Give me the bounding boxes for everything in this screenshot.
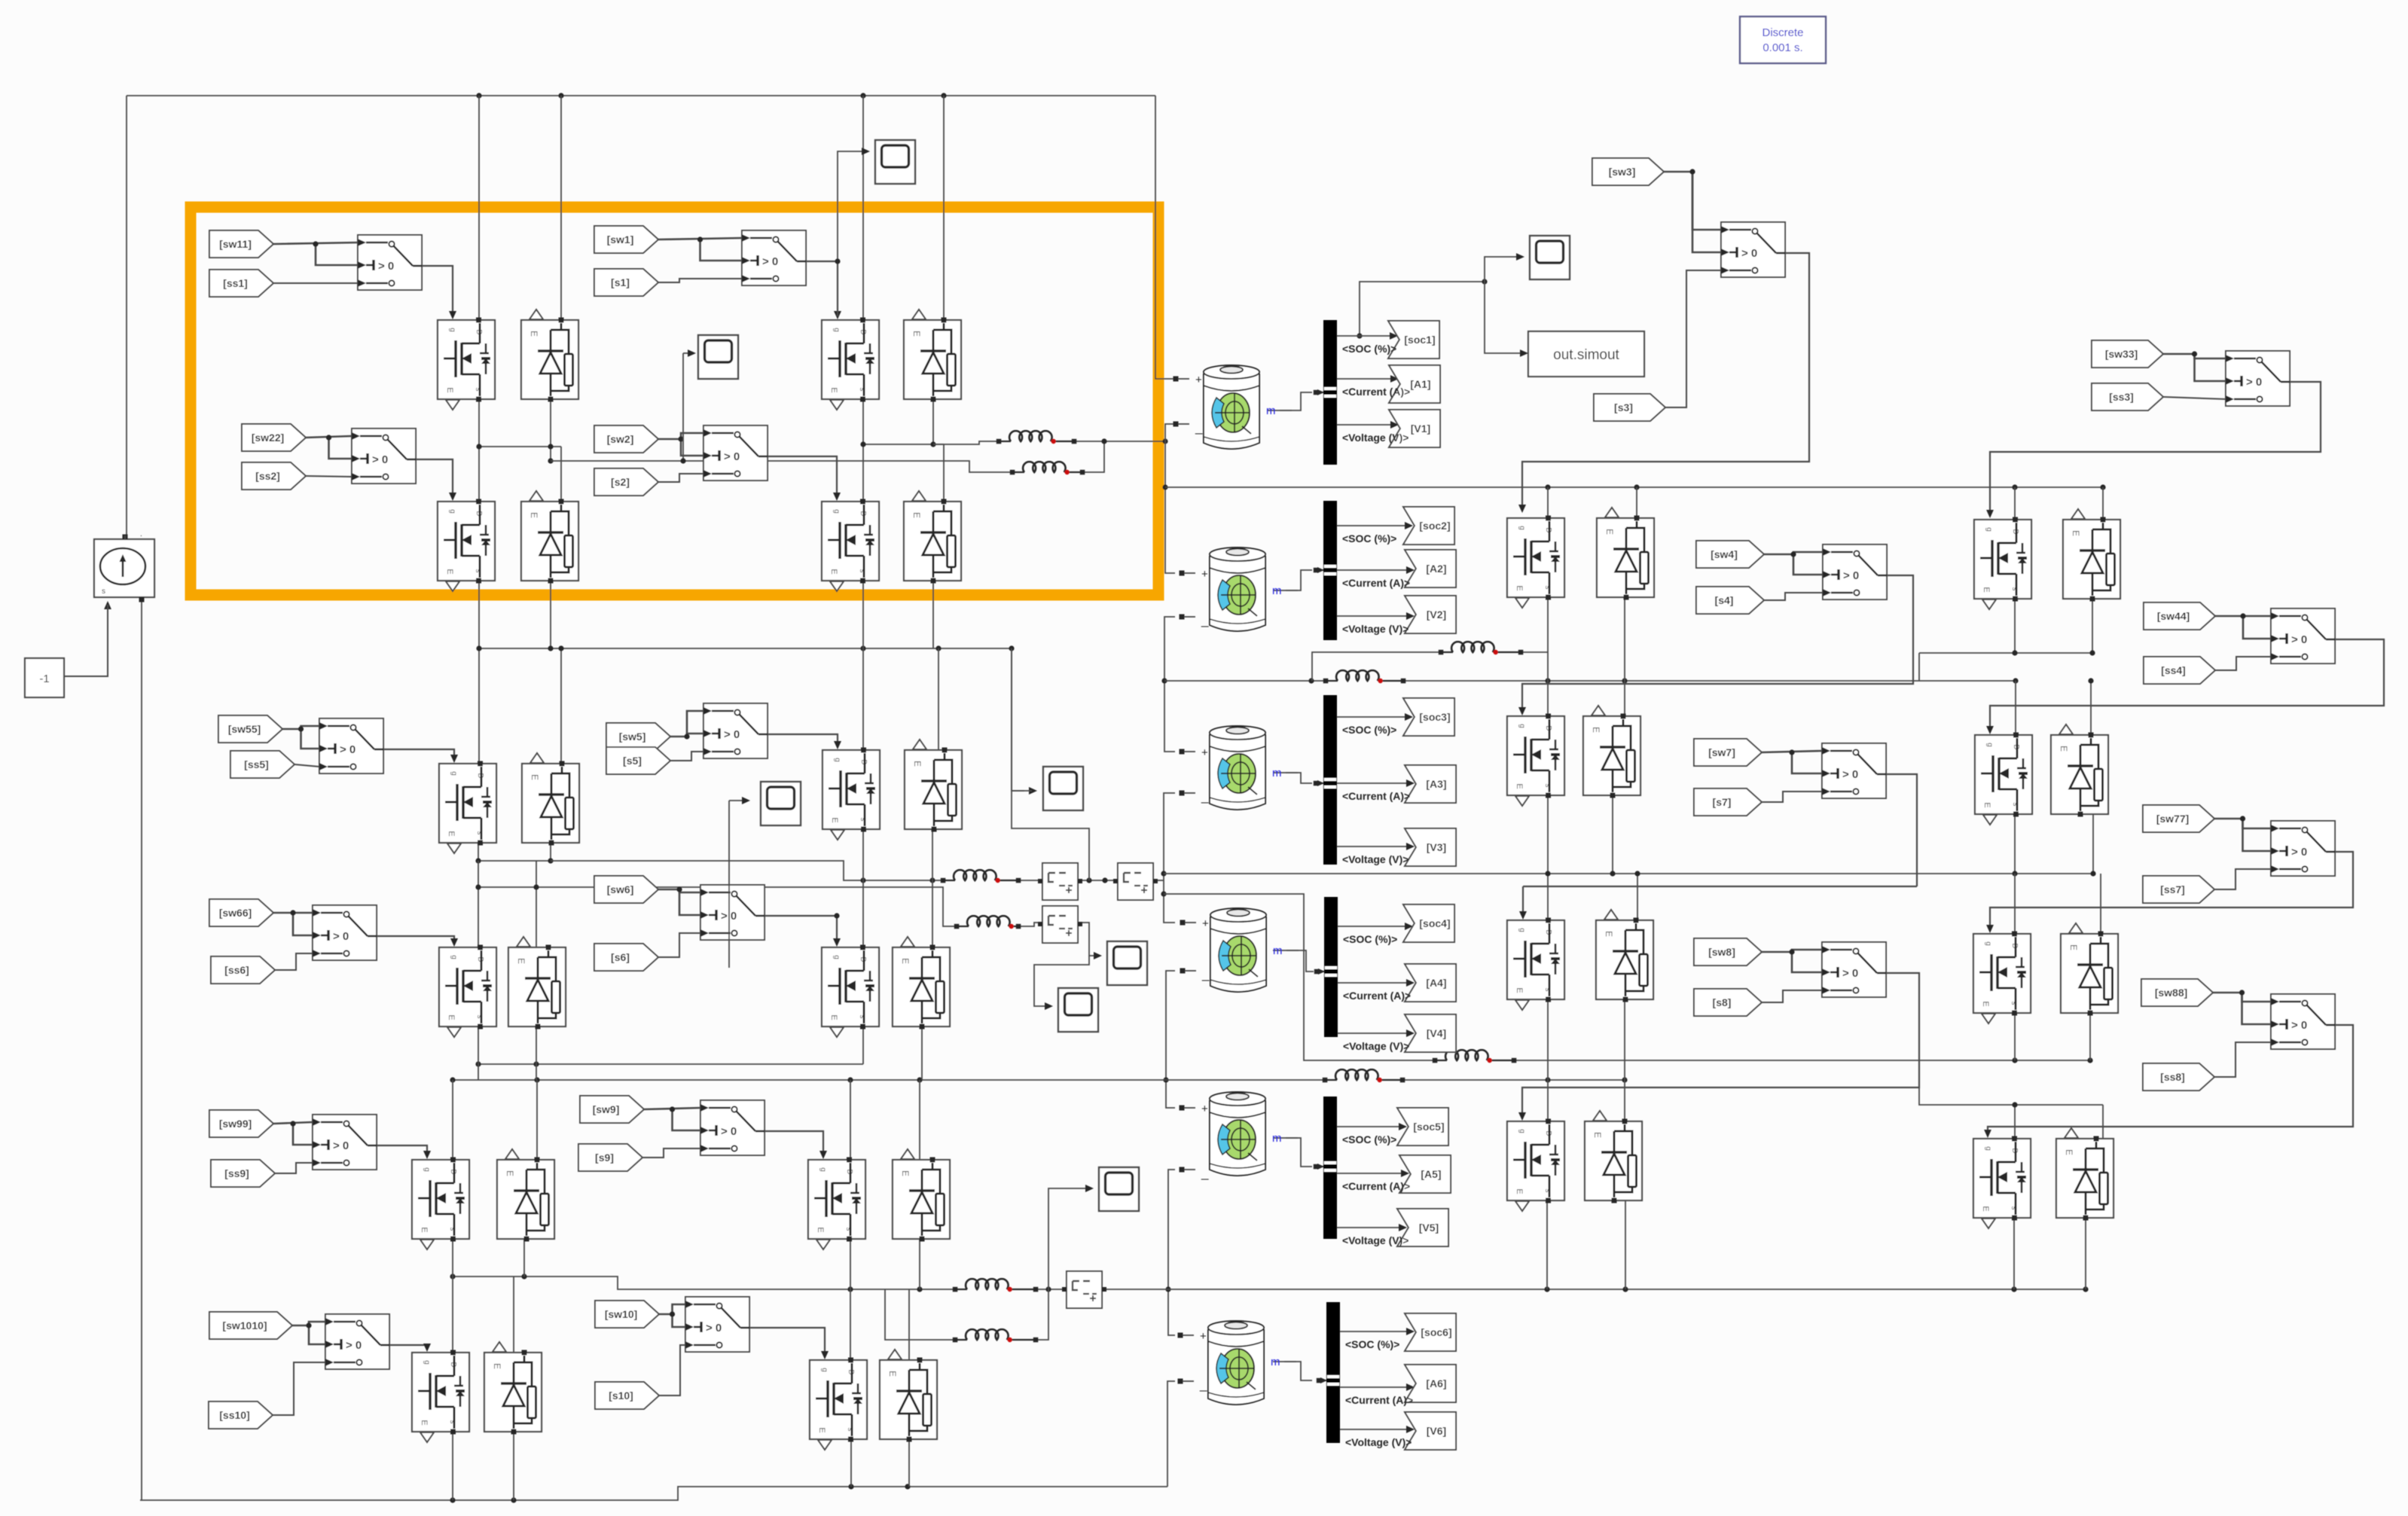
mosfet QA2 far col A <box>1974 517 2031 610</box>
arrow A3 <box>1406 779 1415 787</box>
wire sw5 to switch <box>670 711 703 737</box>
switch sw22-2 <box>352 429 416 483</box>
wire rail B-C b2 <box>1637 874 1638 920</box>
junction dots bridge3 mid <box>450 1274 922 1292</box>
svg-text:> 0: > 0 <box>1843 569 1859 582</box>
from tag s6 <box>594 944 658 971</box>
wire rail A-B b <box>1624 597 1625 716</box>
from tag sw3 <box>1592 158 1664 185</box>
wire rail Dp bots b <box>2085 1218 2086 1289</box>
wire s3 to switch <box>1665 270 1721 407</box>
from tag sw66 <box>209 899 273 926</box>
svg-text:[sw66]: [sw66] <box>219 907 252 919</box>
svg-text:_: _ <box>1201 1166 1209 1180</box>
wire rail B-C a <box>1547 795 1549 920</box>
wire ind2e out <box>1018 923 1042 926</box>
wire battery4 m <box>1273 950 1314 972</box>
svg-text:m: m <box>1272 767 1282 779</box>
arrow soc5 <box>1399 1123 1407 1130</box>
diode D10 <box>484 1342 542 1435</box>
wire rail Cp tops a <box>2014 874 2016 934</box>
mosfet Q9 bridge3 top left <box>412 1158 469 1250</box>
wire s5 to switch <box>670 752 703 761</box>
wire rail diode-mid low1 <box>932 581 934 648</box>
wire sw22 branch <box>329 438 353 459</box>
current source SRC <box>94 530 154 602</box>
arrow gate sw66-6 <box>450 938 458 947</box>
junction dots bridge2 left mid <box>475 858 553 863</box>
wire sw1010 to switch <box>292 1322 325 1325</box>
wire sw1 to switch <box>658 238 742 239</box>
battery B2 <box>1210 548 1265 631</box>
svg-text:> 0: > 0 <box>1842 768 1858 781</box>
wire node56 bus mid <box>1036 1289 1067 1290</box>
wire scope2b feed <box>728 801 730 968</box>
svg-text:g: g <box>819 1167 827 1172</box>
wire rail Dp tops b <box>2102 1105 2104 1139</box>
svg-text:g: g <box>450 771 458 776</box>
arrow V3 <box>1406 843 1415 850</box>
wire sw99 branch <box>293 1124 313 1145</box>
svg-text:[sw8]: [sw8] <box>1708 946 1735 958</box>
svg-text:E: E <box>912 761 923 767</box>
wire bridge2 left mid tap <box>551 861 943 880</box>
from tag sw88 <box>2141 979 2213 1006</box>
inductor LA <box>1439 642 1524 654</box>
wire rail diode-left b2bot <box>550 843 551 861</box>
wire battery5 minus link <box>1168 1170 1175 1335</box>
bus selector 2 <box>1323 501 1337 640</box>
switch sw77-r <box>2271 821 2335 876</box>
wire sw4 branch <box>1793 554 1823 575</box>
svg-text:> 0: > 0 <box>706 1322 722 1335</box>
mosfet Q4 bridge1 bot mid <box>822 499 879 592</box>
svg-text:[sw22]: [sw22] <box>252 432 285 444</box>
svg-text:E: E <box>1604 529 1615 535</box>
wire s9 to switch <box>642 1148 700 1158</box>
svg-text:> 0: > 0 <box>2291 846 2307 859</box>
junction dots top bus <box>476 93 946 98</box>
measure block M2 <box>1113 863 1158 900</box>
from tag s3 <box>1594 394 1665 421</box>
wire s6 to switch <box>658 933 700 957</box>
wire soc1 branch <box>1360 282 1485 336</box>
svg-text:[sw1010]: [sw1010] <box>222 1319 267 1331</box>
wire rail b3 mid b <box>919 1239 920 1289</box>
wire source top <box>124 535 126 539</box>
svg-text:E: E <box>1591 727 1601 733</box>
svg-text:E: E <box>530 774 540 780</box>
scope2 (bridge1 mid) <box>698 335 738 379</box>
wire sw7-r output <box>1885 773 1887 775</box>
arrow soc1 <box>1390 332 1398 340</box>
junction dots bridge1 mid midpoint <box>860 441 935 447</box>
wire ind merge to node12 <box>1104 441 1165 442</box>
label bus selector 6 out2 <box>1345 1394 1413 1406</box>
svg-text:.: . <box>140 530 142 538</box>
arrow gate sw10-10 <box>821 1351 829 1359</box>
junction sw5 <box>684 734 689 739</box>
block Discrete <box>1740 17 1826 63</box>
wire sw2-2 output <box>768 456 837 498</box>
wire rail diode-mid mid1b <box>943 444 945 502</box>
wire rail diode-left b2top <box>560 648 562 764</box>
arrow gate sw1010-10 <box>423 1344 431 1352</box>
wire rail b2 bottoms b <box>536 1026 537 1064</box>
svg-text:_: _ <box>1201 967 1210 981</box>
label bus selector 4 out2 <box>1343 990 1411 1002</box>
wire sw88-r output <box>2334 1024 2336 1026</box>
goto tag soc1 <box>1388 321 1439 358</box>
junction dot node23 vertical <box>1161 678 1167 683</box>
svg-text:+: + <box>1201 568 1208 581</box>
battery B5 <box>1210 1092 1265 1176</box>
svg-text:[V5]: [V5] <box>1419 1222 1439 1234</box>
wire bridge2 bottom bus <box>478 1063 863 1065</box>
junction dot ind merge <box>1101 438 1167 444</box>
wire rail b2 bottoms d <box>921 1026 923 1080</box>
svg-text:[sw55]: [sw55] <box>228 723 261 735</box>
svg-text:> 0: > 0 <box>724 728 740 741</box>
junction dot node12 vertical <box>1162 484 1167 490</box>
svg-text:[sw11]: [sw11] <box>219 238 252 250</box>
svg-text:E: E <box>1515 585 1524 590</box>
svg-text:[A2]: [A2] <box>1426 563 1446 575</box>
junction dots node12 <box>1545 484 2105 490</box>
svg-text:[soc6]: [soc6] <box>1421 1326 1451 1338</box>
wire rail Cp tops b <box>2100 874 2101 934</box>
junction sw55 <box>298 726 304 731</box>
wire sw22 to switch <box>306 436 352 438</box>
battery B4 m label <box>1273 944 1299 957</box>
svg-text:E: E <box>420 1420 429 1425</box>
arrow gate sw1-1 <box>834 311 841 319</box>
mosfet QC right col C <box>1507 918 1564 1011</box>
wire bridge1 bottom bus <box>479 648 1012 649</box>
wire rail Ap tops b <box>2102 487 2104 520</box>
wire battery6 m <box>1273 1362 1312 1380</box>
junction sw6 out <box>834 913 839 918</box>
arrow gate sw55-5 <box>450 755 458 763</box>
arrow gate sw9-9 <box>819 1151 827 1159</box>
wire sw11-1 output <box>422 266 453 316</box>
svg-text:g: g <box>820 1368 829 1372</box>
inductor L5 <box>953 1279 1039 1292</box>
wire rail mosfet-left low2 <box>478 861 479 947</box>
svg-text:g: g <box>1984 1146 1992 1151</box>
goto tag soc4 <box>1403 904 1454 942</box>
wire scope1 feed <box>838 151 866 261</box>
arrow gate sw99-9 <box>423 1151 431 1159</box>
goto tag soc2 <box>1403 507 1454 544</box>
wire ind1e out <box>1018 880 1042 881</box>
wire node12 bus <box>1165 487 2103 488</box>
diode DA2 <box>2063 509 2120 602</box>
wire sw1010 branch <box>309 1325 325 1344</box>
junction sw22 <box>326 435 331 440</box>
svg-text:[ss10]: [ss10] <box>219 1409 249 1421</box>
svg-text:[sw5]: [sw5] <box>619 731 646 743</box>
from tag sw33 <box>2092 340 2163 368</box>
label bus selector 3 out1 <box>1342 724 1396 736</box>
wire rail diode-left mid1a <box>550 399 551 461</box>
arrow A6 <box>1406 1383 1415 1391</box>
svg-text:E: E <box>829 569 838 574</box>
wire meas1 branch up <box>1012 648 1089 880</box>
svg-text:g: g <box>448 328 456 332</box>
junction dot meas1 out <box>1086 877 1107 883</box>
junction dots node45 <box>450 1077 1627 1082</box>
label bus selector 5 out3 <box>1342 1234 1408 1246</box>
svg-text:g: g <box>1985 743 1994 747</box>
wire ss5 to switch <box>295 764 319 767</box>
wire A4 out <box>1338 982 1411 984</box>
switch sw4-r <box>1823 544 1887 599</box>
arrow into source <box>104 601 111 609</box>
wire ss3 to switch <box>2163 397 2226 399</box>
wire battery2 minus link <box>1164 617 1175 752</box>
wire const to source <box>64 605 108 676</box>
diode D9b <box>893 1149 950 1242</box>
svg-text:<SOC (%)>: <SOC (%)> <box>1342 532 1396 544</box>
svg-text:> 0: > 0 <box>346 1339 362 1352</box>
junction dots node23 <box>1308 678 2018 683</box>
svg-text:> 0: > 0 <box>724 450 740 463</box>
wire bridge2 lower mid tap <box>478 887 957 926</box>
junction dots node56 right <box>1544 1286 2088 1292</box>
wire rail diode-mid b2top <box>938 648 939 750</box>
svg-text:g: g <box>832 328 841 332</box>
from tag sw44 <box>2144 602 2215 630</box>
svg-text:E: E <box>505 1170 515 1176</box>
mosfet Q10 bridge3 bot left <box>412 1350 469 1443</box>
svg-text:g: g <box>1518 928 1526 932</box>
wire rail diode-left low1 <box>550 581 551 648</box>
diode D10b <box>880 1350 937 1442</box>
svg-text:+: + <box>1195 374 1202 386</box>
wire V5 out <box>1337 1227 1403 1228</box>
svg-text:E: E <box>445 569 454 574</box>
junction sw8 <box>1789 949 1794 954</box>
battery B2 m label <box>1272 584 1298 597</box>
svg-text:<Current (A)>: <Current (A)> <box>1342 386 1410 398</box>
from tag s5 <box>606 747 670 774</box>
wire rail b3 mid a <box>850 1239 851 1360</box>
label bus selector 2 out3 <box>1342 623 1408 635</box>
diode DB <box>1583 706 1640 798</box>
wire bridge1 left midpoint link <box>479 446 561 447</box>
wire s8 to switch <box>1762 990 1822 1002</box>
arrow A2 <box>1406 566 1415 574</box>
wire bridge1 mid tap to inductor <box>933 441 999 444</box>
battery B6 m label <box>1271 1356 1296 1368</box>
svg-text:> 0: > 0 <box>333 930 349 943</box>
scope2c (bridge2 right) <box>1029 767 1083 810</box>
junction dots bridge2 lower tap <box>475 884 539 889</box>
svg-text:g: g <box>832 955 841 959</box>
wire A5 out <box>1337 1173 1405 1174</box>
wire rail b3 mid tops b <box>919 1080 920 1160</box>
svg-text:E: E <box>1515 987 1524 993</box>
wire left bottom vertical <box>141 599 142 1500</box>
switch sw55-5 <box>319 718 383 773</box>
from tag s8 <box>1694 989 1762 1016</box>
junction sw66 <box>290 910 295 915</box>
junction sw2 <box>678 436 683 441</box>
wire rail b3 left mid c <box>513 1277 514 1353</box>
svg-text:E: E <box>2071 530 2081 536</box>
wire rail diode-left low2b <box>536 880 537 947</box>
constant -1 <box>25 658 64 697</box>
mosfet Q5 bridge2 top left <box>439 761 496 854</box>
arrow gate sw44-r <box>1986 726 1994 734</box>
junction dots node34 vertical <box>1161 871 1166 896</box>
wire rail diode-mid b2b <box>932 829 933 947</box>
wire sw3 to switch <box>1664 172 1721 230</box>
diode DB2 <box>2051 724 2108 817</box>
wire sw1010-10 output <box>389 1345 427 1349</box>
diode DA <box>1597 508 1654 600</box>
wire sw6-6 output <box>765 916 837 944</box>
goto tag soc6 <box>1405 1313 1456 1351</box>
svg-text:E: E <box>1981 1206 1990 1211</box>
battery B2 minus port <box>1180 613 1210 627</box>
svg-text:m: m <box>1272 1132 1282 1145</box>
from tag s10 <box>595 1382 659 1409</box>
wire node23 branch up <box>1312 652 1441 681</box>
inductor LD <box>1323 1069 1405 1082</box>
svg-text:[ss6]: [ss6] <box>224 964 249 976</box>
wire rail mosfet-left mid1 <box>478 399 480 502</box>
goto tag V3 <box>1405 828 1456 866</box>
svg-text:-1: -1 <box>39 673 49 685</box>
junction sw7 <box>1789 749 1794 755</box>
svg-text:[ss2]: [ss2] <box>255 470 280 482</box>
svg-text:> 0: > 0 <box>340 743 356 756</box>
wire meas2 out <box>1152 880 1164 881</box>
diode DD <box>1585 1111 1642 1203</box>
wire ss10 to switch <box>273 1362 325 1415</box>
wire scope5 feed <box>1048 1188 1090 1289</box>
wire rail b2 bottoms a <box>478 1026 479 1064</box>
from tag sw22 <box>242 424 306 451</box>
switch sw1-1 <box>742 230 806 285</box>
svg-text:[A4]: [A4] <box>1426 977 1446 989</box>
svg-text:m: m <box>1266 404 1276 417</box>
wire meas3 branch scope <box>1034 956 1089 1006</box>
bus selector 4 <box>1324 897 1338 1037</box>
battery B6 plus port <box>1178 1330 1207 1343</box>
svg-text:[A6]: [A6] <box>1426 1377 1446 1389</box>
from tag ss7 <box>2143 876 2214 903</box>
bus selector 1 input <box>1314 387 1336 398</box>
svg-text:+: + <box>1201 1103 1208 1115</box>
goto tag A4 <box>1405 964 1456 1002</box>
svg-text:E: E <box>1982 587 1991 592</box>
svg-text:E: E <box>900 1170 911 1176</box>
wire indA out <box>1521 651 1548 653</box>
wire rail Bp bots b <box>2092 814 2094 874</box>
svg-text:[soc3]: [soc3] <box>1419 711 1450 723</box>
goto tag V6 <box>1405 1412 1456 1450</box>
mosfet Q9b bridge3 top mid <box>808 1158 865 1250</box>
svg-text:[A5]: [A5] <box>1421 1168 1441 1180</box>
wire node45 bus left <box>453 1079 1325 1081</box>
svg-text:<SOC (%)>: <SOC (%)> <box>1343 933 1397 945</box>
wire b2-b3 link b <box>536 1064 537 1080</box>
junction dots bottom bus <box>450 1484 910 1502</box>
from tag ss9 <box>211 1160 275 1187</box>
diode DC <box>1596 910 1653 1002</box>
svg-text:E: E <box>911 512 922 518</box>
svg-text:<SOC (%)>: <SOC (%)> <box>1342 724 1396 736</box>
svg-text:_: _ <box>1201 789 1209 804</box>
svg-text:<Current (A)>: <Current (A)> <box>1342 1180 1410 1192</box>
switch sw6-6 <box>700 885 765 940</box>
wire s1 to switch <box>658 279 742 282</box>
wire rail b2 bottoms c <box>862 1026 864 1064</box>
junction scope2 feed <box>680 458 685 463</box>
from tag sw99 <box>209 1110 273 1137</box>
junction dot Bp top b <box>2088 678 2093 683</box>
junction sw88 <box>2239 990 2245 995</box>
wire switch88 gate line <box>1988 1025 2353 1135</box>
svg-text:[sw99]: [sw99] <box>219 1118 252 1130</box>
wire rail mosfet-mid mid1 <box>862 399 864 502</box>
wire V6 out <box>1340 1429 1411 1430</box>
goto tag A6 <box>1405 1365 1456 1402</box>
wire rail Bp tops b <box>2090 681 2092 735</box>
bus selector 5 input <box>1314 1161 1336 1172</box>
from tag s7 <box>1694 789 1762 816</box>
wire ss4 to switch <box>2215 657 2271 670</box>
diode D1 <box>521 310 578 402</box>
svg-text:[A3]: [A3] <box>1426 778 1446 790</box>
wire rail b3 left mid b <box>523 1238 525 1277</box>
svg-text:E: E <box>829 1014 838 1020</box>
wire switch7 gate drop <box>1522 886 1524 917</box>
wire soc3 out <box>1337 716 1409 718</box>
wire sw33 branch <box>2195 354 2226 381</box>
switch sw8-r <box>1822 942 1886 997</box>
junction dots indC line <box>2012 1057 2092 1063</box>
svg-text:E: E <box>1982 802 1991 807</box>
wire V4 out <box>1338 1033 1411 1034</box>
goto tag V5 <box>1397 1209 1448 1246</box>
from tag sw4 <box>1696 541 1764 568</box>
wire rail Dp tops a <box>2014 1105 2016 1139</box>
switch sw11-1 <box>358 235 422 290</box>
wire BC gate line <box>1523 886 1917 887</box>
arrow A1 <box>1390 375 1399 383</box>
inductor L1 <box>996 431 1077 444</box>
switch sw33-r <box>2226 351 2290 406</box>
wire sw2 to switch <box>658 433 703 439</box>
wire scope2c elbow <box>1012 648 1032 791</box>
wire sw33-r output <box>2289 381 2290 383</box>
wire sw99 to switch <box>273 1122 313 1124</box>
wire node23 bus a <box>1164 680 1326 682</box>
arrow gate sw33-r <box>1986 510 1994 518</box>
svg-text:> 0: > 0 <box>333 1139 349 1152</box>
battery B3 minus port <box>1180 789 1210 804</box>
wire sw88 branch <box>2242 993 2272 1024</box>
wire rail b3 tops a <box>452 1080 453 1160</box>
arrow V5 <box>1399 1224 1407 1231</box>
svg-text:[soc1]: [soc1] <box>1404 334 1435 346</box>
wire sw1-1 output <box>806 261 838 262</box>
wire rail b3 mid bots b <box>908 1439 910 1487</box>
